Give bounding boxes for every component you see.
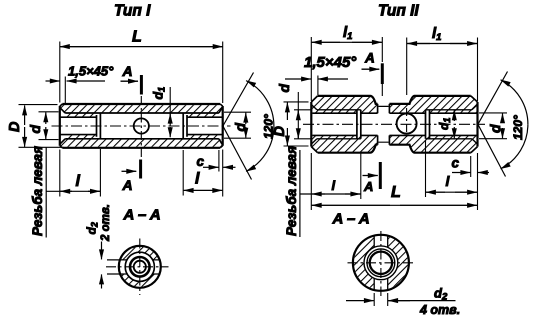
thread minor line top-left I	[60, 116, 96, 118]
section crosshair II	[348, 262, 415, 264]
dimension c right I	[218, 150, 220, 172]
thread minor line bottom-right I	[187, 134, 222, 136]
svg-text:1,5×45°: 1,5×45°	[68, 64, 114, 79]
thread circle I	[130, 257, 150, 277]
bore lines middle II	[361, 113, 426, 135]
dimension d1 II	[453, 110, 455, 121]
svg-text:A: A	[363, 179, 373, 194]
dimension l bottom-right I	[183, 150, 223, 197]
dimension d1 I	[169, 87, 171, 126]
outer top outline II	[318, 96, 471, 104]
dimension l1 right II	[407, 38, 478, 102]
dimension d2 I	[101, 242, 103, 260]
hatch thread sliver top-left I	[65, 113, 96, 117]
hole vertical centerline II	[406, 108, 408, 140]
bore circle I	[125, 252, 154, 281]
outer corner chamfers I	[60, 104, 223, 148]
thread end lines left I	[97, 113, 101, 139]
thread minor lines right II	[430, 113, 477, 135]
thread minor line top-right I	[187, 116, 222, 118]
thread circle outer II	[367, 249, 395, 277]
angle 120 rays II	[478, 72, 508, 177]
svg-text:Тип II: Тип II	[378, 3, 419, 20]
thread end lines right II	[426, 110, 430, 139]
svg-text:c: c	[452, 156, 460, 171]
thread circle inner II	[370, 252, 392, 274]
svg-text:l1: l1	[343, 24, 352, 42]
svg-text:Тип I: Тип I	[114, 3, 151, 20]
dimension l1 left II	[311, 37, 382, 101]
svg-text:A: A	[122, 63, 133, 79]
outer circle II	[353, 235, 409, 291]
svg-text:L: L	[132, 29, 142, 46]
bore circle II	[364, 246, 398, 280]
svg-text:d: d	[27, 125, 43, 134]
svg-text:4 отв.: 4 отв.	[419, 303, 460, 317]
right face edge II	[476, 102, 478, 147]
hole channel top II	[374, 234, 388, 247]
svg-text:Резьба левая: Резьба левая	[30, 146, 45, 236]
section crosshair I	[106, 266, 169, 268]
hatch top band I	[61, 105, 222, 112]
svg-text:A: A	[364, 51, 375, 66]
svg-text:l: l	[195, 171, 200, 188]
thread minor line bottom-left I	[60, 134, 96, 136]
cross hole walls top II	[378, 104, 390, 113]
hole gap left I	[112, 260, 127, 274]
dimension L bottom II	[311, 153, 477, 210]
axis centerline I	[52, 125, 231, 127]
body outline I	[62, 104, 220, 148]
svg-text:d2: d2	[434, 286, 448, 303]
svg-text:D: D	[7, 121, 23, 132]
svg-text:l: l	[446, 173, 451, 189]
hatch bottom-left II	[312, 136, 378, 152]
svg-text:d2: d2	[85, 222, 100, 234]
cross hole far edge II	[378, 106, 388, 142]
svg-text:L: L	[391, 184, 401, 201]
section hatch ring I	[120, 247, 160, 287]
svg-text:c: c	[197, 154, 205, 169]
svg-text:d: d	[232, 123, 248, 132]
axis centerline II	[303, 123, 485, 125]
left face edge II	[310, 102, 312, 147]
hatch top-right II	[389, 97, 477, 113]
svg-text:d1: d1	[152, 87, 167, 100]
svg-text:A – A: A – A	[332, 211, 370, 228]
thread end lines left II	[357, 110, 361, 139]
inner circle I	[134, 261, 146, 273]
outer chamfer diagonals II	[311, 96, 477, 153]
dimension d right I	[224, 112, 251, 138]
center hole I	[134, 118, 149, 133]
dimension c right II	[470, 156, 472, 177]
svg-text:2 отв.: 2 отв.	[100, 204, 112, 242]
svg-text:l1: l1	[432, 25, 441, 43]
section hatch ring II	[354, 236, 408, 290]
dimension d left I	[39, 112, 59, 140]
angle 120 rays I	[223, 73, 254, 180]
svg-text:d1: d1	[437, 118, 452, 130]
hatch thread sliver top-right I	[187, 113, 219, 117]
dimension l bottom-left I	[60, 149, 101, 197]
dimension d left II	[294, 110, 311, 139]
svg-text:Резьба левая: Резьба левая	[284, 146, 299, 236]
left entrance chamfer I	[60, 108, 65, 145]
cross hole circle II	[397, 114, 417, 134]
note left-hand thread II	[299, 150, 301, 237]
dimension D left II	[284, 102, 309, 146]
hole gap right I	[153, 260, 168, 274]
section trace A bottom II	[379, 162, 382, 189]
svg-text:l: l	[76, 173, 81, 190]
hole vertical centerline I	[140, 96, 142, 157]
dimension l bottom-left II	[360, 153, 362, 199]
right face edge I	[222, 106, 224, 146]
thread major lines left II	[317, 110, 361, 139]
dimension l bottom-right II	[425, 140, 427, 197]
thread end lines right I	[183, 113, 187, 139]
section trace A top I	[140, 75, 143, 95]
dimension D left I	[19, 105, 64, 148]
angle 120 arc I	[246, 81, 274, 126]
right entrance countersink I	[219, 107, 223, 146]
outer bottom outline II	[318, 145, 471, 153]
hole edge lines I	[107, 260, 160, 274]
entrance chamfer diagonals II	[311, 105, 477, 145]
dimension d2 II	[374, 293, 388, 306]
svg-text:d: d	[276, 84, 292, 93]
angle 120 arc II	[501, 80, 528, 125]
thread minor lines left II	[312, 113, 357, 135]
hatch bottom-right II	[389, 136, 477, 152]
svg-text:l: l	[332, 178, 336, 193]
thread major lines I	[65, 113, 219, 139]
section trace A bottom I	[139, 160, 142, 179]
hatch thread sliver bottom-right I	[187, 135, 219, 139]
dimension L I	[60, 42, 223, 104]
hatch top-left II	[312, 97, 378, 113]
dimension d right II	[479, 113, 507, 139]
hatch bottom band I	[61, 139, 222, 146]
svg-text:d: d	[487, 124, 503, 133]
note left-hand thread I	[45, 147, 47, 237]
svg-text:1,5×45°: 1,5×45°	[304, 54, 357, 71]
svg-text:120°: 120°	[511, 115, 525, 140]
svg-text:A: A	[122, 177, 133, 193]
svg-text:A – A: A – A	[123, 207, 161, 224]
left face edge I	[59, 106, 61, 146]
outer circle I	[119, 246, 161, 288]
svg-text:D: D	[272, 126, 288, 137]
hole channel bottom II	[374, 279, 388, 292]
hole channel edges II	[374, 235, 388, 291]
thread major lines right II	[426, 110, 472, 139]
section trace A top II	[381, 63, 384, 84]
cross hole walls bottom II	[378, 135, 390, 144]
hatch thread sliver bottom-left I	[65, 135, 96, 139]
